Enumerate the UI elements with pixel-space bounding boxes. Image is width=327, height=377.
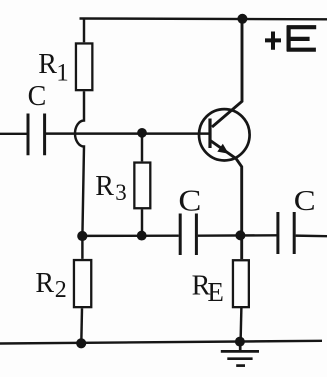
svg-text:C: C xyxy=(294,184,316,217)
svg-text:C: C xyxy=(178,184,201,218)
svg-text:R: R xyxy=(95,171,114,202)
svg-text:C: C xyxy=(28,81,47,112)
svg-text:R: R xyxy=(35,268,54,299)
svg-text:E: E xyxy=(207,277,224,307)
svg-text:R: R xyxy=(38,49,57,80)
svg-text:1: 1 xyxy=(56,60,68,87)
svg-text:2: 2 xyxy=(55,277,67,303)
svg-text:3: 3 xyxy=(115,180,127,205)
